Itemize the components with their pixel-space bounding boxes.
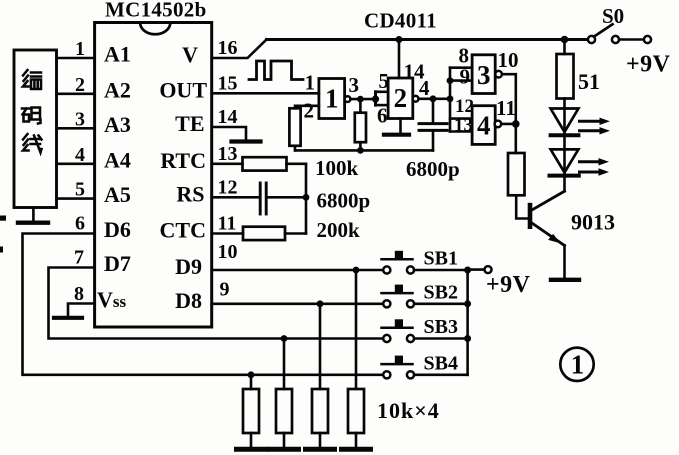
node gate2 input tie bbox=[372, 96, 379, 103]
wire encoder to pin 1 bbox=[57, 57, 95, 60]
svg-text:2: 2 bbox=[394, 83, 408, 113]
wire encoder to pin 4 bbox=[57, 163, 95, 166]
node gate1 out junction bbox=[357, 96, 364, 103]
wire gate3 pin8 stub bbox=[450, 66, 472, 69]
svg-text:16: 16 bbox=[218, 37, 238, 59]
wire gate3 pin9 stub bbox=[450, 79, 472, 82]
svg-text:A2: A2 bbox=[104, 77, 131, 102]
IC notch bbox=[140, 24, 170, 34]
wire gates3/4 input bus bbox=[449, 68, 452, 132]
resistor 10k #4 bbox=[348, 389, 364, 433]
resistor 10k #2 bbox=[276, 389, 292, 433]
wire CD4011 pin14 drop bbox=[398, 40, 401, 79]
svg-text:3: 3 bbox=[477, 60, 491, 90]
ground (resistor 2) bbox=[283, 433, 286, 447]
svg-text:2: 2 bbox=[75, 74, 85, 96]
svg-text:SB2: SB2 bbox=[424, 281, 458, 303]
wire resistor to LED1 bbox=[563, 99, 566, 109]
wire SB2 row drop bbox=[319, 304, 322, 389]
svg-text:8: 8 bbox=[74, 283, 84, 305]
svg-text:1: 1 bbox=[571, 350, 585, 380]
svg-text:15: 15 bbox=[218, 72, 238, 94]
node rail/CD4011 pin14 junction bbox=[396, 36, 403, 43]
svg-text:3: 3 bbox=[75, 108, 85, 130]
svg-text:D7: D7 bbox=[104, 251, 131, 276]
node gates3/4 input bus junction bbox=[447, 95, 454, 102]
svg-text:10: 10 bbox=[498, 48, 519, 72]
resistor 200k bbox=[243, 227, 285, 240]
resistor R (feedback) bbox=[359, 99, 362, 113]
transistor Q1 9013 base bar bbox=[528, 203, 533, 229]
wire top supply rail bbox=[267, 38, 588, 41]
wire gate1 pin2 stub bbox=[295, 106, 319, 109]
wire oscillator bottom rail bbox=[295, 149, 433, 152]
svg-text:RTC: RTC bbox=[160, 148, 206, 173]
capacitor 6800p (RS) bbox=[259, 183, 262, 214]
svg-text:SB3: SB3 bbox=[424, 316, 458, 338]
transistor collector bbox=[532, 191, 565, 210]
wire pin7 D7 route to SB3 bbox=[49, 268, 384, 339]
TE termination bar bbox=[232, 139, 261, 143]
wire gate4 out bbox=[501, 123, 515, 126]
svg-text:S0: S0 bbox=[602, 4, 624, 28]
wire LED1 to LED2 bbox=[563, 137, 566, 149]
transistor emitter bbox=[532, 223, 565, 246]
svg-text:A3: A3 bbox=[104, 112, 131, 137]
svg-text:D9: D9 bbox=[175, 254, 202, 279]
wire button bus vertical bbox=[466, 270, 469, 375]
char 线 bbox=[23, 134, 42, 153]
svg-text:10: 10 bbox=[218, 241, 238, 263]
node SB3 row to resistor bbox=[281, 335, 288, 342]
capacitor 6800p (osc) bbox=[432, 99, 435, 122]
svg-text:12: 12 bbox=[218, 176, 238, 198]
svg-text:3: 3 bbox=[349, 73, 360, 97]
wire pin12 RS bbox=[212, 196, 260, 199]
svg-text:D8: D8 bbox=[175, 288, 202, 313]
wire emitter to ground bbox=[563, 246, 566, 278]
node bottom rail junction bbox=[357, 147, 364, 154]
svg-text:CD4011: CD4011 bbox=[364, 9, 437, 33]
ground (resistor 4) bbox=[355, 433, 358, 447]
node bus SB3 bbox=[464, 335, 471, 342]
wire S0 to +9V terminal bbox=[619, 38, 644, 41]
emitter arrowhead bbox=[548, 234, 560, 243]
svg-text:14: 14 bbox=[218, 106, 238, 128]
svg-text:SB1: SB1 bbox=[424, 248, 458, 270]
svg-text:V: V bbox=[182, 42, 198, 67]
resistor (base drive) bbox=[508, 153, 525, 195]
wire gate4 pin12 stub bbox=[450, 117, 472, 120]
wire resistor to bottom rail bbox=[294, 146, 297, 151]
svg-text:2: 2 bbox=[304, 99, 315, 123]
svg-text:4: 4 bbox=[477, 111, 491, 141]
ground (encoder box) bbox=[32, 208, 35, 222]
IC U1 MC14502b body bbox=[95, 23, 212, 328]
svg-text:D6: D6 bbox=[104, 217, 131, 242]
wire gate2 input tie bracket bbox=[374, 92, 377, 105]
wire encoder to pin 5 bbox=[57, 197, 95, 200]
svg-text:+9V: +9V bbox=[626, 52, 671, 78]
svg-text:A4: A4 bbox=[104, 147, 131, 172]
gate1 output bubble bbox=[345, 96, 351, 102]
wire LED2 to collector bbox=[563, 178, 566, 192]
svg-text:6: 6 bbox=[377, 104, 388, 128]
terminal +9V (buttons) bbox=[485, 266, 492, 273]
resistor 10k #3 bbox=[312, 389, 328, 433]
svg-text:11: 11 bbox=[218, 213, 237, 235]
svg-text:1: 1 bbox=[305, 71, 316, 95]
node outputs tie bbox=[512, 120, 520, 128]
node rail to 51 resistor bbox=[561, 36, 569, 44]
svg-text:A5: A5 bbox=[104, 182, 131, 207]
LED D2 bbox=[551, 149, 579, 172]
node pin9 tie bbox=[447, 77, 454, 84]
svg-text:51: 51 bbox=[578, 69, 600, 94]
wire gate4 pin13 stub bbox=[450, 130, 472, 133]
svg-text:6800p: 6800p bbox=[317, 189, 371, 213]
resistor R (gate1 input) bbox=[289, 108, 300, 146]
wire pin6 D6 route to SB4 bbox=[23, 234, 384, 375]
wire bus to +9V terminal bbox=[471, 268, 484, 271]
gate2 output bubble bbox=[413, 96, 419, 102]
gate3 output bubble bbox=[495, 71, 502, 78]
terminal +9V bbox=[644, 36, 651, 43]
svg-text:OUT: OUT bbox=[159, 77, 207, 102]
wire SB3 row drop bbox=[283, 339, 286, 390]
svg-text:10k×4: 10k×4 bbox=[377, 398, 440, 423]
svg-text:1: 1 bbox=[75, 38, 85, 60]
svg-text:9013: 9013 bbox=[571, 210, 615, 235]
svg-text:9: 9 bbox=[460, 65, 471, 89]
gate4 output bubble bbox=[495, 121, 502, 128]
wire resistor to base bbox=[516, 195, 528, 218]
resistor 51 bbox=[563, 40, 566, 55]
node SB4 row to resistor bbox=[248, 371, 255, 378]
svg-text:6800p: 6800p bbox=[406, 157, 460, 181]
ground (resistor 3) bbox=[319, 433, 322, 447]
svg-text:11: 11 bbox=[496, 96, 516, 120]
node bus SB2 bbox=[464, 300, 471, 307]
node capacitor branch bbox=[430, 95, 437, 102]
char 编 bbox=[23, 70, 41, 89]
svg-text:SB4: SB4 bbox=[424, 352, 458, 374]
figure number circle 1 bbox=[560, 348, 593, 381]
switch S0 right contact bbox=[612, 36, 619, 43]
wire pin14 TE bbox=[212, 127, 246, 140]
wire encoder to pin 3 bbox=[57, 127, 95, 130]
gate U2b (2) body bbox=[388, 78, 413, 119]
svg-text:4: 4 bbox=[75, 144, 85, 166]
svg-text:200k: 200k bbox=[317, 218, 361, 242]
wire gate2 out to gates 3/4 bbox=[419, 98, 451, 101]
char 码 bbox=[22, 108, 41, 124]
pushbutton SB2 bbox=[382, 285, 468, 308]
ground (resistor 1) bbox=[250, 433, 253, 447]
waveform symbol bbox=[249, 61, 303, 80]
scan edge artifact bbox=[0, 216, 6, 221]
wire 100k to node bbox=[287, 163, 307, 166]
wire cap to node bbox=[267, 196, 306, 199]
wire pin16 V to rail bbox=[212, 40, 267, 59]
wire pin10 D9 to SB1 bbox=[212, 269, 383, 272]
ground (emitter) bbox=[551, 278, 579, 282]
gate U2c (3) body bbox=[472, 55, 495, 94]
svg-text:RS: RS bbox=[176, 181, 204, 206]
ground (Vss) bbox=[54, 316, 82, 320]
wire pin8 Vss to ground bbox=[68, 304, 95, 317]
svg-text:CTC: CTC bbox=[160, 218, 206, 243]
svg-text:MC14502b: MC14502b bbox=[105, 0, 207, 22]
encoder-line box 编码线 bbox=[14, 50, 57, 208]
svg-text:9: 9 bbox=[220, 279, 230, 301]
pushbutton SB4 bbox=[382, 356, 468, 379]
scan edge artifact bbox=[0, 247, 3, 253]
pushbutton SB3 bbox=[382, 319, 468, 342]
svg-text:5: 5 bbox=[75, 179, 85, 201]
wire pin15 OUT to gate1 input bbox=[212, 92, 319, 95]
svg-text:100k: 100k bbox=[315, 156, 359, 180]
node RC junction bbox=[303, 194, 310, 201]
svg-text:TE: TE bbox=[175, 111, 204, 136]
resistor 100k bbox=[243, 157, 287, 170]
wire gate1 out to gate2 in bbox=[350, 98, 375, 101]
switch S0 left contact bbox=[588, 36, 595, 43]
wire pin11 CTC bbox=[212, 232, 243, 235]
LED D1 emission arrows bbox=[580, 118, 611, 135]
gate U2a (1) body bbox=[319, 79, 345, 119]
LED D2 emission arrows bbox=[580, 158, 610, 176]
svg-text:7: 7 bbox=[74, 247, 84, 269]
LED D1 bbox=[551, 109, 579, 133]
gate U2d (4) body bbox=[472, 106, 495, 145]
wire gate3 out down bbox=[502, 74, 516, 153]
svg-text:4: 4 bbox=[419, 76, 430, 100]
ground (gate2 pin7) bbox=[399, 119, 402, 134]
node SB1 row to resistor bbox=[353, 267, 360, 274]
wire encoder to pin 2 bbox=[57, 93, 95, 96]
svg-text:A1: A1 bbox=[104, 42, 131, 67]
node bus SB1 bbox=[464, 267, 471, 274]
svg-text:6: 6 bbox=[75, 213, 85, 235]
svg-text:13: 13 bbox=[454, 115, 473, 136]
svg-text:13: 13 bbox=[218, 143, 238, 165]
switch S0 lever bbox=[595, 24, 613, 36]
wire RC common vertical bbox=[305, 164, 308, 234]
svg-text:1: 1 bbox=[325, 84, 339, 114]
wire SB4 row drop bbox=[250, 375, 253, 389]
svg-text:+9V: +9V bbox=[486, 272, 531, 298]
wire SB1 row drop bbox=[355, 270, 358, 389]
node SB2 row to resistor bbox=[317, 300, 324, 307]
wire 200k to node bbox=[285, 232, 306, 235]
wire pin9 D8 to SB2 bbox=[212, 302, 383, 305]
wire pin13 RTC bbox=[212, 163, 243, 166]
pushbutton SB1 bbox=[382, 251, 468, 274]
resistor 10k #1 bbox=[243, 389, 259, 433]
